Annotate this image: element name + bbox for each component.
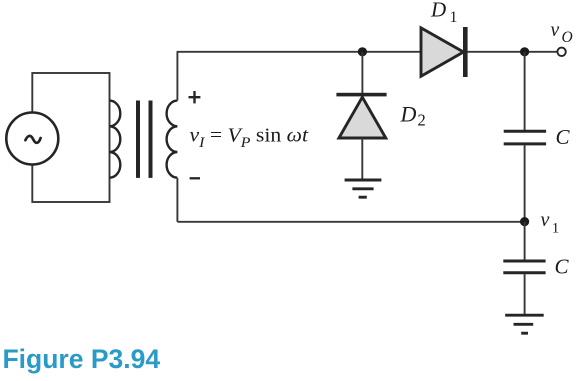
svg-text:O: O <box>562 29 573 46</box>
transformer secondary coil <box>167 101 178 178</box>
wire: top rail from secondary to D1 anode <box>177 51 421 53</box>
svg-text:C: C <box>555 254 570 278</box>
capacitor C (lower) <box>503 261 545 273</box>
svg-text:1: 1 <box>552 221 560 237</box>
diode D2 <box>336 93 386 138</box>
wire: capacitor C (upper) to node v1 <box>524 145 526 221</box>
wire: top rail from D1 cathode to output terminal <box>468 51 558 53</box>
svg-text:D: D <box>400 101 417 126</box>
wire: bottom rail from secondary to node v1 <box>177 221 524 223</box>
svg-text:D: D <box>430 0 446 22</box>
svg-text:C: C <box>556 125 571 149</box>
transformer core <box>136 101 153 178</box>
ac source VS <box>6 113 58 165</box>
label − polarity <box>190 177 200 179</box>
ground under D2 <box>345 180 382 197</box>
svg-text:1: 1 <box>450 9 458 26</box>
capacitor C (upper) <box>504 131 546 144</box>
wire: secondary top lead <box>176 52 178 101</box>
svg-text:v: v <box>551 20 560 41</box>
figure caption <box>3 346 161 373</box>
transformer primary coil <box>110 101 121 178</box>
wire: secondary bottom lead <box>176 178 178 222</box>
wire: D2 branch from junction to cathode bar <box>361 52 363 93</box>
node: junction dot at D2 tap <box>358 47 367 56</box>
node v1 junction dot <box>520 217 529 226</box>
wire: node v1 down to capacitor C (lower) <box>524 222 526 260</box>
label + polarity <box>189 91 201 103</box>
svg-text:2: 2 <box>418 111 426 130</box>
wire: D2 anode to ground <box>361 138 363 180</box>
ground under capacitor C (lower) <box>505 315 544 333</box>
node: junction dot at output <box>520 47 529 56</box>
wire: output node down to capacitor C (upper) <box>524 52 526 130</box>
output terminal vO open circle <box>557 48 565 56</box>
wire: capacitor C (lower) to ground <box>524 274 526 315</box>
diode D1 <box>421 27 468 77</box>
svg-text:vI = VP sin ωt: vI = VP sin ωt <box>190 125 310 151</box>
wire: AC source loop rectangle <box>32 73 109 202</box>
svg-text:v: v <box>541 209 550 231</box>
